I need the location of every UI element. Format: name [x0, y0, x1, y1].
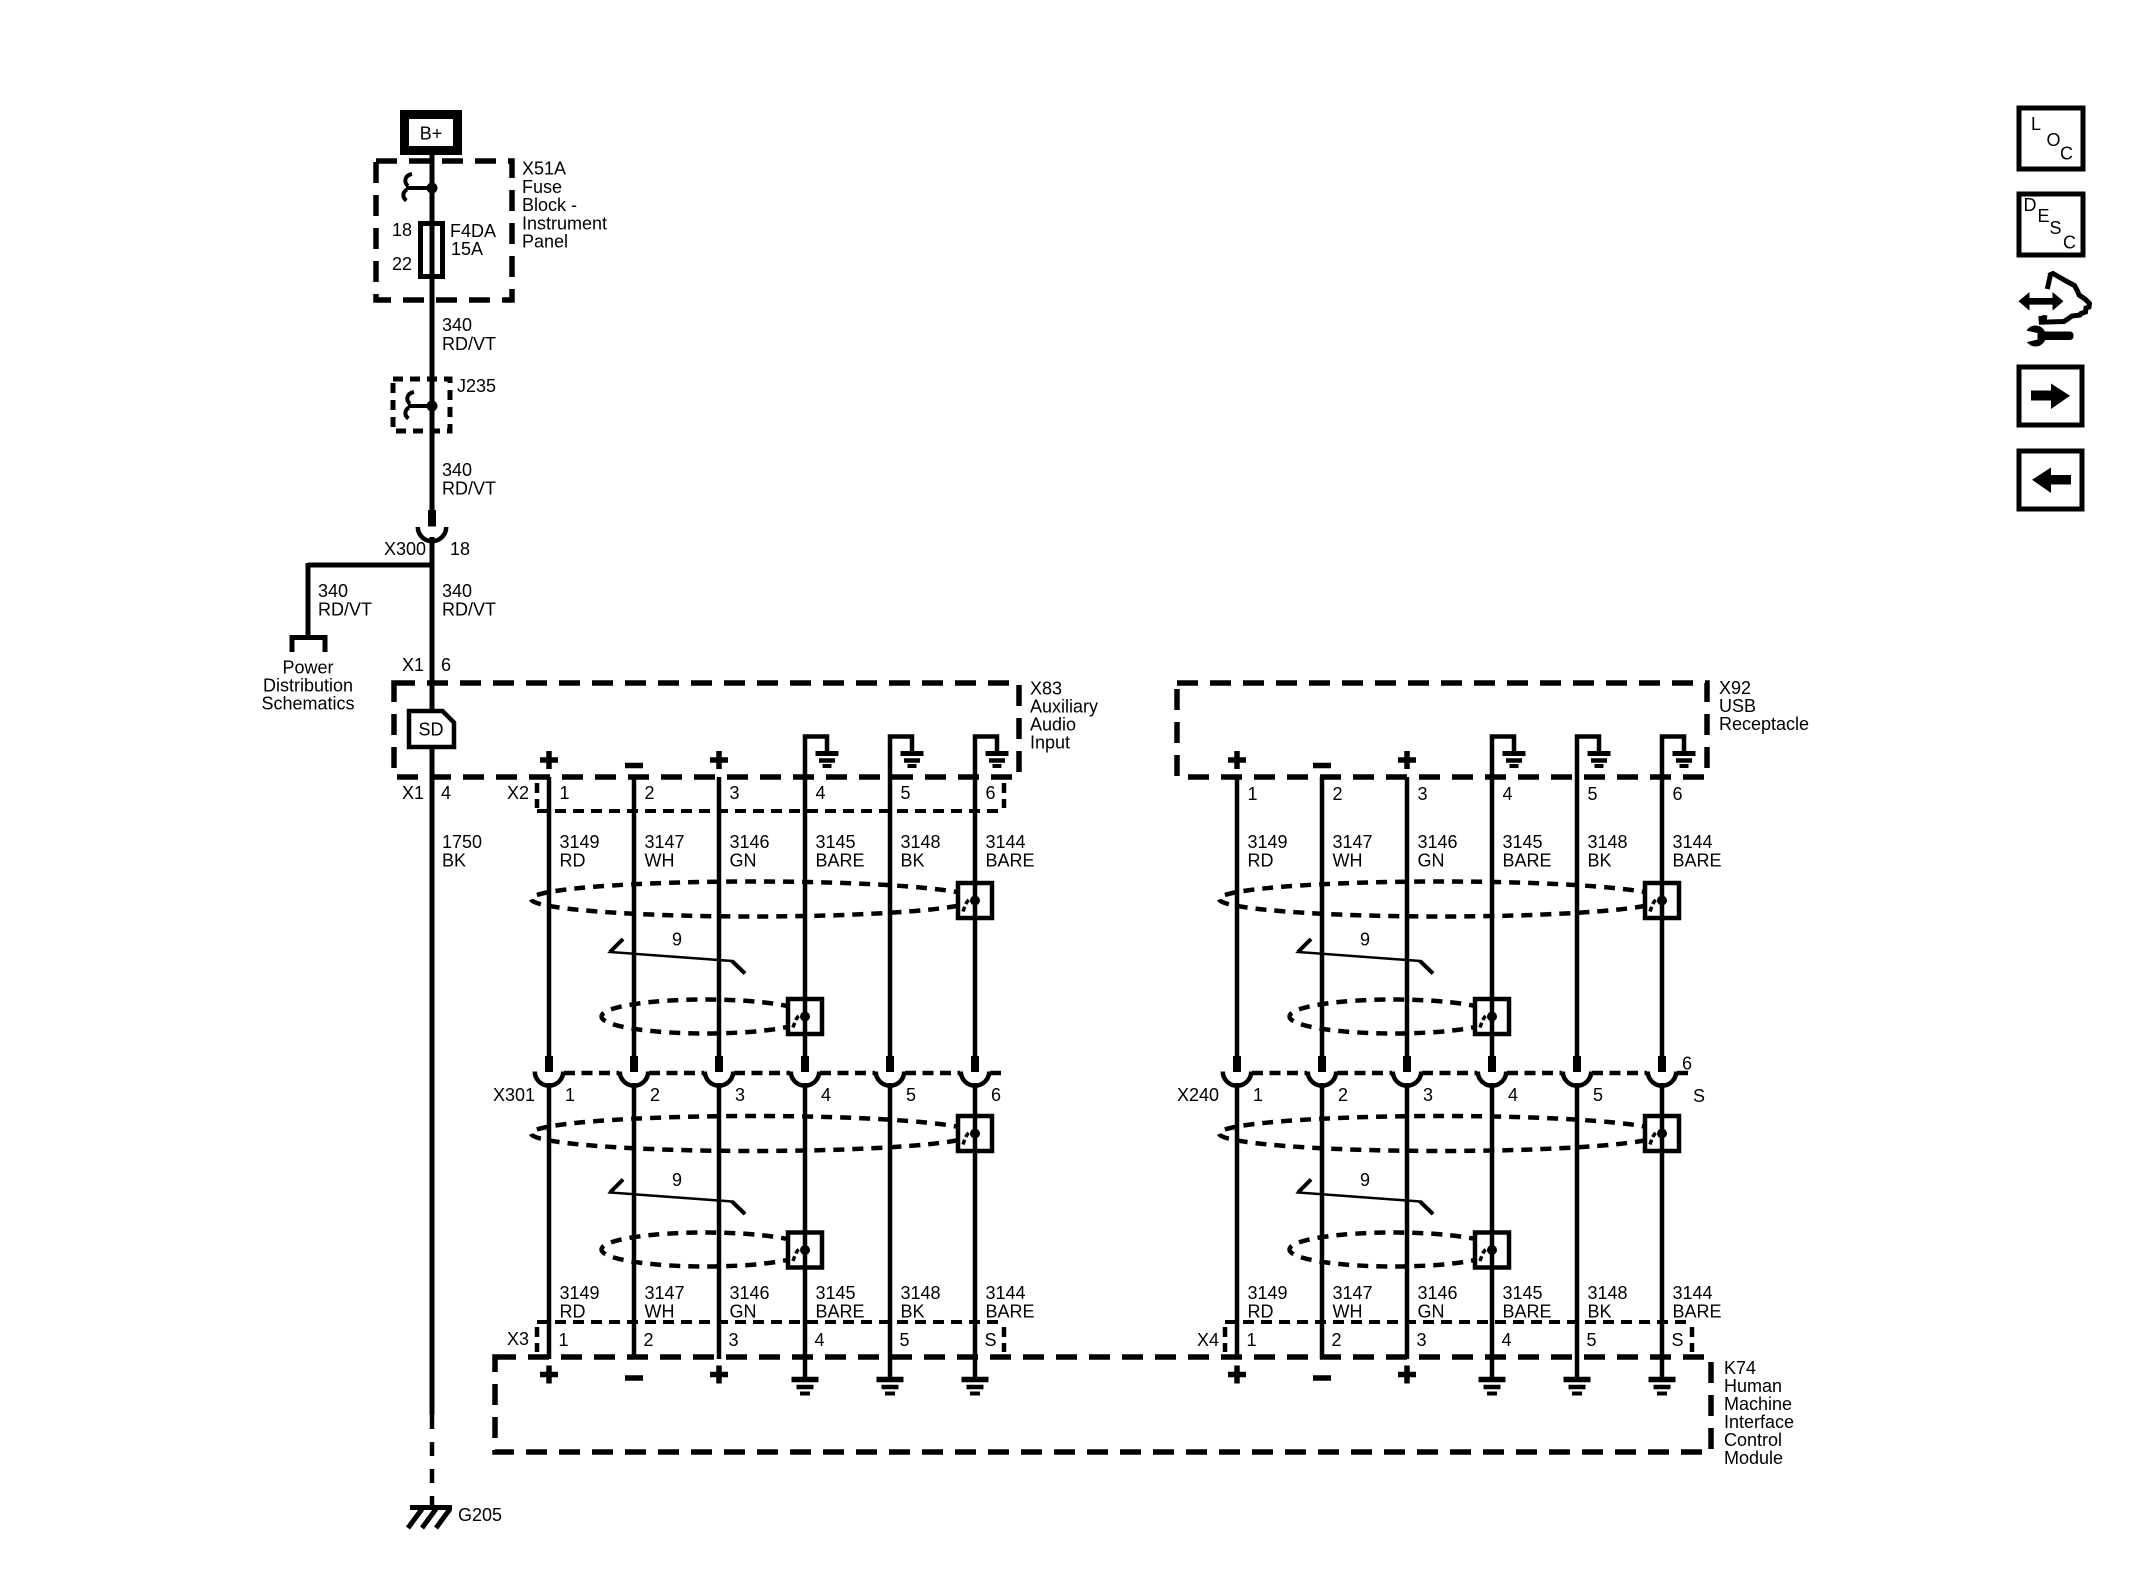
svg-text:3: 3 [730, 783, 740, 803]
SD card symbol [409, 711, 454, 747]
svg-text:Audio: Audio [1030, 715, 1076, 735]
svg-text:J235: J235 [457, 376, 496, 396]
shield ellipse right lower inner [1290, 1233, 1498, 1267]
svg-text:Input: Input [1030, 733, 1070, 753]
X3 pin number 1 [559, 1330, 569, 1350]
svg-text:3144: 3144 [986, 1283, 1026, 1303]
label K74 Human Machine Interface Control Module [1724, 1358, 1794, 1468]
X92 pin 5 ground [1577, 737, 1611, 778]
svg-text:X1: X1 [402, 783, 424, 803]
wire right circuit 1 upper [1235, 777, 1240, 1056]
wire left circuit 2 lower [632, 1083, 637, 1359]
X83 pin 3 audio + [710, 751, 728, 769]
svg-text:5: 5 [1593, 1085, 1603, 1105]
svg-text:3146: 3146 [1418, 832, 1458, 852]
X92 pin 3 audio + [1398, 751, 1416, 769]
X2 pin number 2 [645, 783, 655, 803]
svg-text:X240: X240 [1177, 1085, 1219, 1105]
svg-text:Interface: Interface [1724, 1412, 1794, 1432]
svg-text:3145: 3145 [816, 832, 856, 852]
wire right circuit 4 lower [1490, 1083, 1495, 1357]
pin 22 label [392, 254, 412, 274]
svg-text:6: 6 [986, 783, 996, 803]
svg-text:RD/VT: RD/VT [318, 600, 372, 620]
K74-X4 pin 3 audio + [1398, 1366, 1416, 1384]
connector X301 pin 1 [535, 1056, 563, 1086]
X92 pin number 1 [1248, 784, 1258, 804]
svg-text:X1: X1 [402, 655, 424, 675]
svg-text:X92: X92 [1719, 678, 1751, 698]
svg-text:1: 1 [560, 783, 570, 803]
X301 pin number 2 [650, 1085, 660, 1105]
icon DESC button [2019, 194, 2083, 255]
svg-text:BARE: BARE [1673, 1302, 1722, 1322]
svg-text:6: 6 [1673, 784, 1683, 804]
svg-text:E: E [2038, 206, 2050, 226]
wire left circuit 6 lower [973, 1083, 978, 1357]
svg-text:5: 5 [900, 1330, 910, 1350]
svg-text:K74: K74 [1724, 1358, 1756, 1378]
svg-text:BARE: BARE [1673, 851, 1722, 871]
svg-text:5: 5 [1588, 784, 1598, 804]
shield box left upper col6 [958, 883, 992, 918]
svg-text:3148: 3148 [901, 1283, 941, 1303]
svg-text:Machine: Machine [1724, 1394, 1792, 1414]
svg-text:X3: X3 [507, 1329, 529, 1349]
X92 pin number 3 [1418, 784, 1428, 804]
svg-text:RD: RD [560, 851, 586, 871]
svg-text:Power: Power [282, 658, 333, 678]
svg-text:1: 1 [1247, 1330, 1257, 1350]
label X301 [493, 1085, 535, 1105]
svg-text:RD/VT: RD/VT [442, 479, 496, 499]
svg-text:X4: X4 [1197, 1330, 1219, 1350]
wire label 3148 BK [901, 832, 941, 871]
svg-text:Fuse: Fuse [522, 177, 562, 197]
svg-text:4: 4 [441, 783, 451, 803]
X2 pin number 3 [730, 783, 740, 803]
svg-text:3: 3 [735, 1085, 745, 1105]
svg-text:RD: RD [1248, 1302, 1274, 1322]
svg-text:Block -: Block - [522, 195, 577, 215]
label X83 Auxiliary Audio Input [1030, 679, 1098, 753]
shield box left lower col6 [958, 1116, 992, 1151]
wire label 3147 WH lower [1333, 1283, 1373, 1322]
X92 pin 1 audio + [1228, 751, 1246, 769]
X240 pin number 1 [1253, 1085, 1263, 1105]
svg-text:BARE: BARE [1503, 1302, 1552, 1322]
wire label 3144 BARE [1673, 832, 1722, 871]
svg-text:3144: 3144 [1673, 1283, 1713, 1303]
svg-text:Human: Human [1724, 1376, 1782, 1396]
icon back arrow button [2019, 451, 2082, 509]
wire left circuit 1 upper [547, 777, 552, 1056]
label J235 [457, 376, 496, 396]
svg-text:3149: 3149 [560, 832, 600, 852]
svg-text:340: 340 [442, 315, 472, 335]
label X4 [1197, 1330, 1219, 1350]
svg-text:9: 9 [672, 1170, 682, 1190]
ground G205 [408, 1508, 452, 1529]
shield box right lower col6 [1645, 1116, 1679, 1151]
wire left circuit 2 upper [632, 777, 637, 1056]
svg-text:3147: 3147 [1333, 1283, 1373, 1303]
K74-X3 pin 5 ground [877, 1357, 904, 1394]
X2 pin number 5 [901, 783, 911, 803]
K74-X3 pin 3 audio + [710, 1366, 728, 1384]
svg-text:F4DA: F4DA [450, 221, 496, 241]
svg-text:3: 3 [1423, 1085, 1433, 1105]
label F4DA 15A [450, 221, 496, 259]
off-page reference symbol [292, 638, 325, 653]
label X300 [384, 539, 426, 559]
svg-text:GN: GN [730, 1302, 757, 1322]
X4 pin number 2 [1332, 1330, 1342, 1350]
shield ellipse left lower full [531, 1116, 975, 1151]
connector X240 pin 1 [1223, 1056, 1251, 1086]
svg-text:2: 2 [1332, 1330, 1342, 1350]
wire left circuit 3 upper [717, 777, 722, 1056]
K74-X3 pin 4 ground [792, 1357, 819, 1394]
connector X301 pin 2 [620, 1056, 648, 1086]
svg-text:3147: 3147 [645, 1283, 685, 1303]
icon vehicle with wrench [2019, 274, 2090, 347]
svg-text:BARE: BARE [1503, 851, 1552, 871]
connector X300 pin 18 [418, 510, 446, 541]
svg-text:5: 5 [1587, 1330, 1597, 1350]
svg-text:1: 1 [565, 1085, 575, 1105]
svg-text:GN: GN [1418, 1302, 1445, 1322]
X92 pin number 6 [1673, 784, 1683, 804]
svg-text:3: 3 [729, 1330, 739, 1350]
wire right circuit 5 lower [1575, 1083, 1580, 1357]
wire label 3149 RD lower [560, 1283, 600, 1322]
svg-text:WH: WH [1333, 851, 1363, 871]
X240 pin number 2 [1338, 1085, 1348, 1105]
svg-text:BK: BK [442, 851, 466, 871]
svg-text:C: C [2060, 144, 2073, 164]
wire left circuit 5 upper [888, 777, 893, 1056]
wire left circuit 4 lower [803, 1083, 808, 1357]
label X3 [507, 1329, 529, 1349]
K74-X4 pin S ground [1649, 1357, 1676, 1394]
K74-X4 pin 1 audio + [1228, 1366, 1246, 1384]
svg-text:RD/VT: RD/VT [442, 600, 496, 620]
svg-text:S: S [1693, 1086, 1705, 1106]
X2 pin number 1 [560, 783, 570, 803]
shield box right upper col6 [1645, 883, 1679, 918]
connector terminal inside X51A [403, 174, 437, 201]
X92 pin 6 ground [1662, 737, 1696, 778]
svg-text:RD: RD [1248, 851, 1274, 871]
X2 pin number 4 [816, 783, 826, 803]
wire 1750 BK dashed continuation [430, 1415, 435, 1506]
connector X2 strip [537, 783, 1004, 811]
wire label 3145 BARE lower [1503, 1283, 1552, 1322]
svg-text:6: 6 [441, 655, 451, 675]
svg-text:4: 4 [816, 783, 826, 803]
splice pack J235 dashed outline [393, 379, 450, 431]
svg-text:3148: 3148 [1588, 1283, 1628, 1303]
X83 pin 5 ground [890, 737, 924, 778]
svg-text:4: 4 [1508, 1085, 1518, 1105]
svg-text:9: 9 [1360, 930, 1370, 950]
connector X301 pin 4 [791, 1056, 819, 1086]
svg-text:15A: 15A [451, 239, 483, 259]
label X92 USB Receptacle [1719, 678, 1809, 734]
pin 18 label [392, 220, 412, 240]
wire label 1750 BK [442, 832, 482, 871]
component X83 Auxiliary Audio Input dashed box [394, 683, 1019, 777]
wire label 3146 GN [730, 832, 770, 871]
connector X301 pin 5 [876, 1056, 904, 1086]
svg-text:BARE: BARE [816, 851, 865, 871]
wire right circuit 2 upper [1320, 777, 1325, 1056]
wire label 340 RD/VT (above J235) [442, 315, 496, 354]
wire label 3149 RD [1248, 832, 1288, 871]
svg-text:4: 4 [821, 1085, 831, 1105]
wire right circuit 3 upper [1405, 777, 1410, 1056]
wire label 3145 BARE lower [816, 1283, 865, 1322]
wire label 3147 WH [645, 832, 685, 871]
X92 pin 2 audio - [1313, 763, 1331, 769]
shield ellipse right lower full [1219, 1116, 1663, 1151]
wire left circuit 3 lower [717, 1083, 722, 1359]
svg-text:GN: GN [730, 851, 757, 871]
shield ellipse left lower inner [602, 1233, 810, 1267]
wire label 3145 BARE [816, 832, 865, 871]
svg-text:2: 2 [650, 1085, 660, 1105]
wire SD to X1-4 [430, 747, 435, 1415]
svg-text:S: S [985, 1330, 997, 1350]
wire branch to power distribution [308, 563, 432, 635]
svg-text:BK: BK [901, 851, 925, 871]
connector X240 pin 6 [1648, 1056, 1676, 1086]
svg-text:3145: 3145 [816, 1283, 856, 1303]
svg-text:SD: SD [418, 720, 443, 740]
X3 pin number 2 [644, 1330, 654, 1350]
svg-text:3146: 3146 [730, 1283, 770, 1303]
icon forward arrow button [2019, 367, 2082, 425]
svg-text:3146: 3146 [1418, 1283, 1458, 1303]
X92 pin number 5 [1588, 784, 1598, 804]
shield ellipse left upper inner [602, 1000, 810, 1034]
wire label 3144 BARE [986, 832, 1035, 871]
svg-text:9: 9 [672, 930, 682, 950]
X301 pin number 5 [906, 1085, 916, 1105]
label 18 [450, 539, 470, 559]
svg-text:9: 9 [1360, 1170, 1370, 1190]
wire right circuit 4 upper [1490, 777, 1495, 1056]
svg-text:2: 2 [1338, 1085, 1348, 1105]
svg-text:1750: 1750 [442, 832, 482, 852]
svg-text:WH: WH [645, 1302, 675, 1322]
K74-X4 pin 2 audio - [1313, 1375, 1331, 1381]
wire label 3148 BK lower [1588, 1283, 1628, 1322]
label X51A Fuse Block - Instrument Panel [522, 159, 607, 252]
svg-text:3: 3 [1417, 1330, 1427, 1350]
svg-text:USB: USB [1719, 696, 1756, 716]
X92 pin number 2 [1333, 784, 1343, 804]
svg-text:Panel: Panel [522, 232, 568, 252]
svg-text:18: 18 [450, 539, 470, 559]
X301 pin number 6 [991, 1085, 1001, 1105]
wire right circuit 3 lower [1405, 1083, 1410, 1359]
connector row dashes X240 [1252, 1071, 1691, 1076]
shield ellipse left upper full [531, 882, 975, 917]
X2 pin number 6 [986, 783, 996, 803]
svg-text:Instrument: Instrument [522, 214, 607, 234]
X83 pin 6 ground [975, 737, 1009, 778]
svg-text:22: 22 [392, 254, 412, 274]
svg-text:O: O [2047, 130, 2061, 150]
label X1 pin 6 [402, 655, 451, 675]
svg-text:3146: 3146 [730, 832, 770, 852]
wire label 340 RD/VT (below J235) [442, 460, 496, 499]
svg-text:3147: 3147 [645, 832, 685, 852]
svg-text:3144: 3144 [1673, 832, 1713, 852]
wire right circuit 6 upper [1660, 777, 1665, 1056]
X3 pin number 3 [729, 1330, 739, 1350]
wire left circuit 6 upper [973, 777, 978, 1056]
X301 pin number 3 [735, 1085, 745, 1105]
svg-text:S: S [1672, 1330, 1684, 1350]
X301 pin number 1 [565, 1085, 575, 1105]
X4 pin number 3 [1417, 1330, 1427, 1350]
module K74 dashed box [495, 1357, 1711, 1452]
svg-text:Distribution: Distribution [263, 676, 353, 696]
connector terminal inside J235 [405, 392, 437, 419]
wire B+ to X300 (340 RD/VT trunk) [430, 154, 435, 510]
svg-text:D: D [2024, 195, 2037, 215]
svg-text:BARE: BARE [816, 1302, 865, 1322]
svg-text:340: 340 [318, 581, 348, 601]
svg-text:BARE: BARE [986, 1302, 1035, 1322]
svg-text:L: L [2031, 114, 2041, 134]
wire left circuit 5 lower [888, 1083, 893, 1357]
svg-text:4: 4 [1502, 1330, 1512, 1350]
X240 pin 6 label [1682, 1054, 1692, 1074]
label X2 [507, 783, 529, 803]
svg-text:S: S [2050, 218, 2062, 238]
svg-text:BK: BK [1588, 851, 1612, 871]
wire right circuit 2 lower [1320, 1083, 1325, 1359]
wire label 3147 WH lower [645, 1283, 685, 1322]
shield ellipse right upper inner [1290, 1000, 1498, 1034]
svg-text:5: 5 [906, 1085, 916, 1105]
K74-X3 pin S ground [962, 1357, 989, 1394]
wire right circuit 1 lower [1235, 1083, 1240, 1359]
wire label 3145 BARE [1503, 832, 1552, 871]
label X1 pin 4 [402, 783, 451, 803]
svg-text:4: 4 [1503, 784, 1513, 804]
svg-text:1: 1 [559, 1330, 569, 1350]
svg-text:X51A: X51A [522, 159, 566, 179]
svg-text:3147: 3147 [1333, 832, 1373, 852]
svg-text:Control: Control [1724, 1430, 1782, 1450]
svg-text:BARE: BARE [986, 851, 1035, 871]
svg-text:WH: WH [645, 851, 675, 871]
svg-text:X2: X2 [507, 783, 529, 803]
label Power Distribution Schematics [261, 658, 354, 714]
X4 pin number 4 [1502, 1330, 1512, 1350]
svg-text:X301: X301 [493, 1085, 535, 1105]
icon LOC button [2019, 108, 2083, 169]
X92 pin number 4 [1503, 784, 1513, 804]
svg-text:340: 340 [442, 581, 472, 601]
connector X240 pin 5 [1563, 1056, 1591, 1086]
svg-text:BK: BK [1588, 1302, 1612, 1322]
K74-X3 pin 2 audio - [625, 1375, 643, 1381]
svg-text:6: 6 [1682, 1054, 1692, 1074]
svg-text:RD: RD [560, 1302, 586, 1322]
wire label 3147 WH [1333, 832, 1373, 871]
svg-text:1: 1 [1253, 1085, 1263, 1105]
wire label 3144 BARE lower [986, 1283, 1035, 1322]
label X240 [1177, 1085, 1219, 1105]
X240 pin number 3 [1423, 1085, 1433, 1105]
svg-text:3145: 3145 [1503, 832, 1543, 852]
svg-text:18: 18 [392, 220, 412, 240]
K74-X4 pin 5 ground [1564, 1357, 1591, 1394]
svg-text:C: C [2063, 233, 2076, 253]
X3 pin number 5 [900, 1330, 910, 1350]
svg-text:3149: 3149 [560, 1283, 600, 1303]
X83 pin 1 audio + [540, 751, 558, 769]
wire label 3146 GN lower [1418, 1283, 1458, 1322]
wire right circuit 6 lower [1660, 1083, 1665, 1357]
X301 pin number 4 [821, 1085, 831, 1105]
X83 pin 4 ground [805, 737, 839, 778]
label G205 [458, 1505, 502, 1525]
X240 pin number 4 [1508, 1085, 1518, 1105]
wire label 3146 GN [1418, 832, 1458, 871]
X4 pin number 1 [1247, 1330, 1257, 1350]
wire left circuit 1 lower [547, 1083, 552, 1359]
svg-text:Receptacle: Receptacle [1719, 714, 1809, 734]
shield box left lower col4 [788, 1233, 822, 1268]
shield ellipse right upper full [1219, 882, 1663, 917]
svg-text:3149: 3149 [1248, 832, 1288, 852]
wire X300 to X83 [430, 537, 435, 711]
connector X4 strip [1225, 1322, 1692, 1352]
wire right circuit 5 upper [1575, 777, 1580, 1056]
svg-text:4: 4 [815, 1330, 825, 1350]
svg-text:5: 5 [901, 783, 911, 803]
svg-text:WH: WH [1333, 1302, 1363, 1322]
K74-X4 pin 4 ground [1479, 1357, 1506, 1394]
label 340 RD/VT (branch) [318, 581, 372, 620]
X3 pin number S [985, 1330, 997, 1350]
component X92 USB Receptacle dashed box [1177, 683, 1707, 777]
connector X240 pin 3 [1393, 1056, 1421, 1086]
connector X3 strip [537, 1322, 1004, 1352]
svg-text:BK: BK [901, 1302, 925, 1322]
svg-text:GN: GN [1418, 851, 1445, 871]
svg-text:3148: 3148 [1588, 832, 1628, 852]
svg-text:B+: B+ [420, 124, 443, 144]
svg-text:2: 2 [1333, 784, 1343, 804]
svg-text:3148: 3148 [901, 832, 941, 852]
connector X240 pin 2 [1308, 1056, 1336, 1086]
X240 pin S label [1693, 1086, 1705, 1106]
connector X301 pin 6 [961, 1056, 989, 1086]
X240 pin number 5 [1593, 1085, 1603, 1105]
wire label 3149 RD lower [1248, 1283, 1288, 1322]
connector X301 pin 3 [705, 1056, 733, 1086]
fuse F4DA 15A [421, 224, 443, 277]
svg-text:3145: 3145 [1503, 1283, 1543, 1303]
